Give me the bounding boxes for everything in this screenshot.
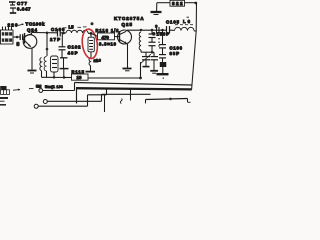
red highlight component X1: [88, 32, 94, 58]
svg-text:5M: 5M: [36, 85, 41, 89]
svg-text:5m(1 1/4: 5m(1 1/4: [45, 84, 63, 89]
wire y78 node: [64, 77, 72, 79]
node at x47: [46, 32, 49, 35]
wire Q25 collector to bus: [126, 29, 128, 32]
wire right border vertical: [192, 31, 197, 89]
wire switch B: [47, 100, 101, 102]
ground (Q25 emitter): [123, 69, 132, 71]
ground (top right): [151, 12, 162, 15]
svg-text:2: 2: [153, 32, 155, 36]
trimmer capacitor A: [141, 52, 151, 66]
wire corner up C: [87, 95, 89, 106]
wire Q25 emitter down: [127, 44, 129, 68]
resistor 1k squiggle below X1: [89, 58, 97, 72]
svg-text:1k: 1k: [94, 59, 98, 63]
wire box to left: [157, 2, 170, 4]
wire stub up from x140: [140, 62, 142, 78]
inductor L5: [66, 30, 88, 33]
wire y82 long: [75, 83, 192, 86]
wire cap to base: [23, 36, 25, 38]
svg-text:KTC2875A: KTC2875A: [114, 16, 144, 21]
resistor R115: [72, 70, 89, 81]
wire main bus right: [127, 29, 196, 32]
svg-text:C105: C105: [166, 20, 180, 25]
wire bottom right run: [146, 99, 188, 100]
svg-text:3: 3: [155, 24, 157, 28]
svg-text:C77: C77: [17, 1, 28, 6]
switch common contact: [39, 89, 43, 93]
svg-text:L6: L6: [183, 19, 191, 24]
resistor R116: [98, 33, 115, 40]
tiny mark: [165, 74, 167, 76]
tiny speck: [187, 17, 190, 19]
node junction: [16, 36, 19, 39]
svg-text:470: 470: [102, 35, 110, 40]
wire shelf C: [88, 94, 107, 96]
box TP (top right): [170, 0, 185, 6]
node x162: [161, 29, 164, 32]
label C102 48P: [68, 45, 82, 56]
wire right vertical top: [195, 3, 197, 31]
capacitor C77 (top left, cut off): [9, 2, 16, 5]
capacitor ladder x152: [149, 30, 156, 52]
stub left end: [145, 100, 147, 104]
wire Q24 emitter down: [31, 48, 33, 71]
svg-text:C106: C106: [170, 45, 183, 50]
arrow 7w: [13, 89, 20, 91]
ground (trimmer A): [143, 66, 150, 68]
junction x140: [139, 77, 142, 80]
node collector: [140, 29, 143, 32]
wire drop x130: [130, 89, 132, 101]
shield box left drop: [76, 88, 78, 103]
wire box to right corner: [185, 2, 197, 4]
svg-text:TC100k: TC100k: [26, 22, 46, 27]
svg-text:L5: L5: [69, 25, 75, 30]
svg-text:R116 1/2: R116 1/2: [96, 28, 120, 33]
capacitor C106 column: [159, 30, 166, 62]
switch lever dash: [29, 88, 34, 90]
svg-text:Q25: Q25: [122, 22, 133, 27]
wire corner to switch common: [74, 83, 76, 91]
annotation dot above bus: [91, 22, 94, 25]
svg-text:3.3=10: 3.3=10: [99, 42, 117, 47]
stub below: [162, 67, 164, 74]
inductor L6: [175, 27, 195, 30]
svg-text:68P: 68P: [170, 51, 180, 56]
capacitor B: [151, 52, 159, 70]
wire down to ground: [156, 3, 158, 12]
wire R116 to Q25 base: [115, 36, 120, 38]
inductor choke vertical: [139, 32, 141, 52]
transformer T1 winding A: [40, 33, 48, 78]
wire node row y77: [42, 76, 73, 78]
connector marks left edge: [1, 90, 10, 95]
capacitor C102: [59, 33, 66, 58]
label C77 0.047: [17, 1, 31, 12]
label C106 68P: [170, 45, 183, 56]
svg-text:C102: C102: [68, 45, 82, 50]
ceramic filter FL (left edge box): [1, 27, 14, 45]
wire bus into R116: [91, 33, 98, 36]
switch stem tick: [39, 85, 41, 88]
wire y52: [141, 51, 154, 53]
wire shelf B: [102, 93, 151, 95]
capacitor 0.047 (I-beam symbol): [10, 8, 16, 13]
wire switch common: [43, 90, 75, 92]
wire corner up B: [101, 94, 103, 101]
svg-text:10: 10: [77, 75, 82, 80]
ground (Q24 emitter): [28, 71, 37, 74]
wire Q24 collector up: [31, 33, 33, 35]
wire R115 right: [88, 77, 141, 79]
junction y52: [151, 51, 154, 54]
wire filter to cap: [13, 36, 20, 38]
shield box bottom (thick): [76, 88, 192, 89]
transistor Q24: [23, 33, 37, 48]
wire drop x104: [104, 94, 106, 112]
capacitor C103 (I-beam): [60, 58, 69, 78]
transistor Q25: [118, 30, 132, 44]
switch contact C: [34, 104, 38, 108]
wire drop x110: [120, 99, 122, 104]
capacitor 220p plates: [20, 34, 22, 40]
svg-text:48P: 48P: [68, 51, 78, 56]
coil can T101: [51, 56, 59, 77]
capacitor C100 plates: [58, 29, 61, 37]
junction: [169, 98, 172, 101]
wire switch C: [38, 105, 87, 107]
switch contact B: [43, 100, 47, 104]
red ellipse annotation: [81, 28, 99, 59]
node x152: [151, 29, 154, 32]
node at x62: [62, 32, 65, 35]
trimmer arrow mark: [18, 23, 24, 25]
ground (below 1k): [86, 71, 96, 73]
label L5 with leader dashes: [63, 25, 87, 30]
junction: [53, 76, 56, 79]
electrolytic body: [160, 62, 167, 67]
svg-text:150P: 150P: [157, 32, 170, 37]
junction: [63, 76, 66, 79]
svg-text:822: 822: [172, 1, 183, 6]
capacitor C105 plates: [167, 26, 170, 33]
svg-text:0.047: 0.047: [17, 7, 31, 12]
bars left edge bottom: [0, 98, 8, 105]
corner dot: [194, 2, 197, 5]
wire inner up: [106, 89, 108, 95]
ground (cap B): [150, 70, 158, 72]
stub right end: [187, 99, 189, 103]
svg-text:Q24: Q24: [27, 28, 38, 33]
wire main bus left: [32, 32, 92, 35]
pin 3 feedthrough: [153, 24, 159, 36]
svg-text:F.M: F.M: [1, 86, 7, 90]
svg-text:220: 220: [8, 23, 18, 28]
svg-text:27P: 27P: [50, 37, 60, 42]
